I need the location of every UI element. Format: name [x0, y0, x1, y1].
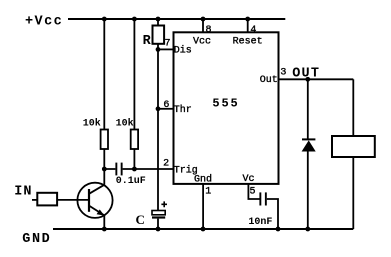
svg-text:Thr: Thr	[174, 104, 192, 116]
svg-text:Gnd: Gnd	[194, 174, 212, 186]
pin number 2	[163, 159, 169, 170]
pin label Dis	[174, 45, 192, 57]
wire 10k-right bottom lead	[133, 149, 135, 169]
capacitor 0.1uF plates	[115, 163, 122, 176]
wire pin 4 stub	[247, 19, 249, 32]
node junction Vcc/10k-left	[102, 17, 107, 22]
resistor 10k left	[101, 130, 108, 150]
node junction Vcc/pin4	[245, 17, 250, 22]
wire pin 8 stub	[202, 19, 204, 32]
capacitor C bottom plate	[152, 216, 165, 218]
svg-text:10nF: 10nF	[248, 217, 272, 228]
label OUT	[292, 67, 320, 82]
label +Vcc	[25, 14, 63, 29]
wire relay feed	[352, 79, 354, 136]
pin label Vc	[243, 174, 255, 185]
label C	[136, 212, 145, 227]
svg-text:C: C	[136, 212, 145, 227]
svg-text:1: 1	[205, 187, 211, 198]
capacitor 10nF plates	[259, 192, 266, 205]
pin label Out	[260, 75, 278, 86]
value label 10nF	[248, 217, 272, 228]
wire emitter	[103, 216, 105, 230]
pin label Reset	[233, 36, 263, 47]
relay coil box	[332, 136, 375, 157]
resistor 10k right	[131, 130, 138, 150]
svg-text:Dis: Dis	[174, 45, 192, 57]
capacitor C electrolytic top plate	[152, 211, 165, 215]
node junction Vcc/pin8	[201, 17, 206, 22]
wire 10k-left bottom lead	[103, 149, 105, 169]
wire ground rail	[53, 228, 353, 230]
diode D1	[302, 139, 316, 151]
svg-text:Reset: Reset	[233, 36, 263, 47]
label GND	[22, 232, 51, 247]
svg-text:0.1uF: 0.1uF	[116, 176, 146, 187]
wire relay to ground	[352, 157, 354, 229]
node junction trig/10k-left	[102, 167, 107, 172]
svg-text:Vcc: Vcc	[193, 36, 211, 47]
wire pin 3 output	[279, 78, 354, 80]
svg-text:Out: Out	[260, 75, 278, 86]
svg-text:GND: GND	[22, 232, 51, 247]
pin label Thr	[174, 104, 192, 116]
svg-text:555: 555	[212, 97, 239, 111]
node junction pin7	[156, 47, 161, 52]
label IN	[14, 185, 32, 200]
wire trigger line pin 2	[104, 168, 173, 170]
wire R top lead	[157, 19, 159, 26]
pin number 5	[250, 187, 256, 198]
wire pin 1 ground stub	[202, 184, 204, 229]
pin number 8	[206, 25, 212, 36]
wire 10nF to ground	[267, 199, 278, 229]
wire collector	[103, 169, 105, 185]
wire pin 5 lead	[248, 184, 259, 200]
node junction gnd/pin1	[201, 227, 206, 232]
svg-text:10k: 10k	[116, 117, 134, 129]
wire 10k-right top lead	[133, 19, 135, 130]
wire 10k-left top lead	[103, 19, 105, 130]
svg-text:6: 6	[163, 100, 169, 111]
label R	[143, 34, 152, 49]
wire base lead	[57, 199, 89, 201]
svg-text:5: 5	[250, 187, 256, 198]
node junction gnd/C	[156, 227, 161, 232]
op IC 555 box U1	[174, 32, 279, 184]
value label 10k right	[116, 117, 134, 129]
wire R bottom to timing cap	[157, 44, 159, 211]
value label 0.1uF	[116, 176, 146, 187]
node junction gnd/diode	[305, 227, 310, 232]
node junction pin6	[156, 106, 161, 111]
pin number 1	[205, 187, 211, 198]
pin label Trig	[174, 164, 198, 176]
label 555	[212, 97, 239, 111]
svg-text:3: 3	[280, 67, 286, 78]
wire Vcc rail	[68, 18, 285, 20]
wire pin 6 stub	[158, 108, 174, 110]
svg-text:+Vcc: +Vcc	[25, 14, 63, 29]
polarity plus sign	[161, 201, 167, 207]
node junction gnd/emitter	[102, 227, 107, 232]
svg-text:R: R	[143, 34, 152, 49]
node junction gnd/10nF	[276, 227, 281, 232]
pin label Vcc	[193, 36, 211, 47]
pin number 6	[163, 100, 169, 111]
svg-text:8: 8	[206, 25, 212, 36]
node junction trig/10k-right	[132, 167, 137, 172]
wire pin 7 stub	[158, 48, 174, 50]
svg-text:2: 2	[163, 159, 169, 170]
wire diode cathode drop	[307, 152, 309, 230]
svg-text:Vc: Vc	[243, 174, 255, 185]
node junction Vcc/10k-right	[132, 17, 137, 22]
wire C to ground	[157, 219, 159, 229]
wire diode anode drop	[307, 79, 309, 139]
resistor R	[153, 26, 165, 44]
value label 10k left	[83, 117, 101, 129]
resistor base series	[37, 193, 57, 206]
svg-text:7: 7	[165, 39, 171, 50]
pin label Gnd	[194, 174, 212, 186]
node junction Vcc/R	[156, 17, 161, 22]
pin number 3	[280, 67, 286, 78]
pin number 7	[165, 39, 171, 50]
svg-text:IN: IN	[14, 185, 32, 200]
pin number 4	[250, 25, 256, 36]
node junction out/diode	[305, 77, 310, 82]
wire IN lead	[32, 199, 37, 201]
transistor Q1	[77, 183, 112, 218]
svg-text:10k: 10k	[83, 117, 101, 129]
svg-text:4: 4	[250, 25, 256, 36]
